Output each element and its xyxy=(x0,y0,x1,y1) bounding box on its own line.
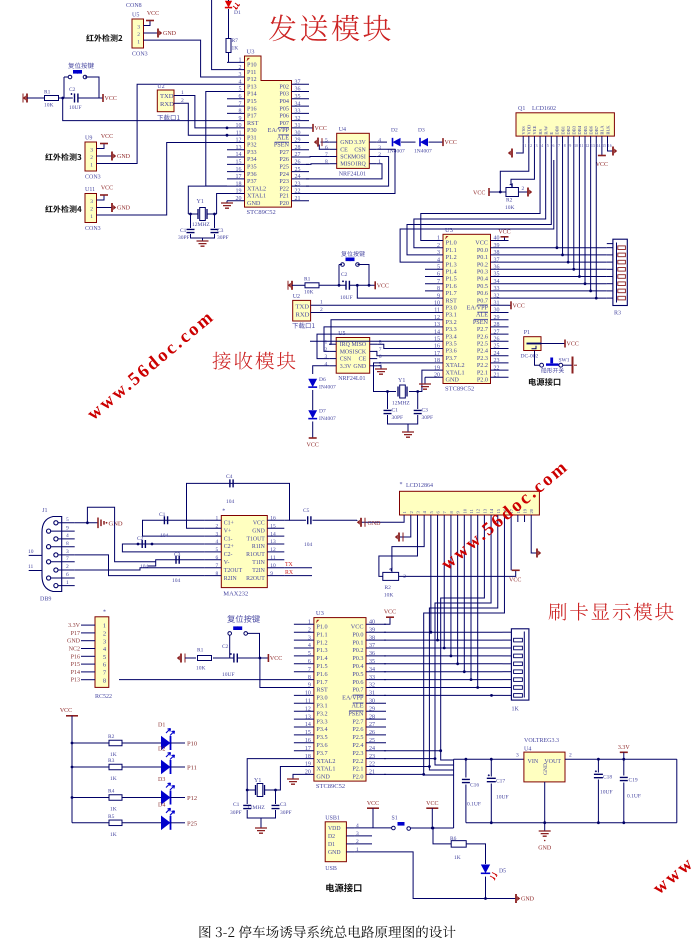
wire P1.7 net xyxy=(119,679,294,681)
svg-text:14: 14 xyxy=(270,531,276,537)
wire XTAL1 (top) xyxy=(217,193,227,214)
svg-text:S1: S1 xyxy=(392,816,398,822)
svg-text:U3: U3 xyxy=(445,227,453,234)
svg-text:32: 32 xyxy=(369,683,375,689)
wire LCD12864 ctrl2 xyxy=(429,522,497,770)
button reset (top) xyxy=(68,75,72,79)
wire XTAL1 (mid) xyxy=(409,370,425,391)
capacitor C2 (mid) xyxy=(346,281,349,290)
potentiometer R2 10K (bottom) xyxy=(383,572,399,580)
svg-text:2: 2 xyxy=(530,144,532,148)
svg-text:R3: R3 xyxy=(614,311,621,317)
svg-text:6: 6 xyxy=(216,555,219,561)
svg-text:C4: C4 xyxy=(226,474,233,480)
wire VOUT rail xyxy=(565,758,677,760)
capacitor C1 30PF (top) xyxy=(190,214,192,228)
svg-text:1N4007: 1N4007 xyxy=(414,149,432,155)
svg-text:32: 32 xyxy=(295,116,301,122)
diode D3 1N4007 xyxy=(420,138,428,147)
svg-text:VCC: VCC xyxy=(377,283,389,289)
wire U11.3 to VCC xyxy=(97,195,105,200)
svg-text:30PF: 30PF xyxy=(280,810,292,816)
svg-text:TX: TX xyxy=(285,562,294,568)
wire LCD12864 pin1 gnd xyxy=(361,521,404,523)
wire Y1 right xyxy=(207,213,217,215)
svg-text:22: 22 xyxy=(494,365,500,371)
pin 7 U5 nrf xyxy=(370,350,378,352)
svg-text:C1: C1 xyxy=(233,802,240,808)
svg-text:BLK: BLK xyxy=(605,125,610,135)
wire node to R6 xyxy=(433,828,451,844)
svg-text:P15: P15 xyxy=(247,98,257,105)
svg-text:P0.6: P0.6 xyxy=(477,290,488,297)
label 复位按键 (top) xyxy=(68,63,94,69)
wire U2.1 to P3.0 (mid) xyxy=(311,304,425,306)
svg-text:12: 12 xyxy=(236,138,242,144)
power VCC (D7) xyxy=(309,437,317,439)
svg-text:CON3: CON3 xyxy=(132,52,148,58)
svg-text:1K: 1K xyxy=(110,776,117,782)
svg-text:11: 11 xyxy=(305,699,311,705)
wire DB9 to R2IN xyxy=(75,555,205,576)
svg-text:2: 2 xyxy=(569,753,572,759)
svg-text:V-: V- xyxy=(224,560,230,566)
ground (reset bottom) xyxy=(180,654,182,663)
svg-text:7: 7 xyxy=(558,144,560,148)
wire bottom P0.1 xyxy=(384,639,503,641)
ground (U3T pin20) xyxy=(226,201,228,203)
svg-text:P3.3: P3.3 xyxy=(446,326,457,333)
svg-text:P1.5: P1.5 xyxy=(446,276,457,283)
display Q1 LCD1602 xyxy=(516,113,614,136)
svg-text:P37: P37 xyxy=(247,178,257,185)
svg-text:104: 104 xyxy=(160,533,169,539)
svg-text:P26: P26 xyxy=(279,156,289,163)
wire P3.6 to MISO xyxy=(377,344,425,348)
svg-text:35: 35 xyxy=(369,659,375,665)
label 复位按键 (bottom) xyxy=(227,615,260,623)
svg-text:P2.4: P2.4 xyxy=(477,348,488,355)
svg-text:13: 13 xyxy=(270,539,276,545)
wire DB1 bus xyxy=(562,143,564,255)
svg-text:P0.0: P0.0 xyxy=(352,631,363,638)
svg-text:XTAL2: XTAL2 xyxy=(446,362,465,369)
svg-text:22: 22 xyxy=(369,762,375,768)
wire P26 to U4 SCK xyxy=(306,156,330,159)
svg-text:P10: P10 xyxy=(247,62,257,69)
svg-text:VCC: VCC xyxy=(567,342,579,348)
pin 4 LCD1602 RS xyxy=(539,136,541,143)
svg-text:2: 2 xyxy=(308,627,311,633)
svg-text:P05: P05 xyxy=(279,105,289,112)
svg-text:VDD: VDD xyxy=(328,826,341,832)
svg-text:30: 30 xyxy=(494,308,500,314)
label 电源接口 (mid) xyxy=(529,378,560,386)
wire LCD pin2 VDD xyxy=(500,143,529,192)
capacitor C3 30PF (top) xyxy=(214,214,216,228)
svg-text:R1IN: R1IN xyxy=(252,544,266,550)
ground (Y1 top) xyxy=(197,241,209,246)
svg-text:6: 6 xyxy=(553,144,555,148)
wire LCD12864 data3 xyxy=(450,522,452,656)
svg-text:10UF: 10UF xyxy=(222,672,235,678)
svg-text:P23: P23 xyxy=(279,178,289,185)
svg-text:C1: C1 xyxy=(159,512,166,518)
svg-text:RC522: RC522 xyxy=(95,694,112,700)
ground (U4 pin5) xyxy=(321,141,330,143)
svg-text:3: 3 xyxy=(90,147,93,153)
wire P25 to U4 MISO xyxy=(306,163,330,166)
svg-text:20: 20 xyxy=(236,196,242,202)
svg-text:1K: 1K xyxy=(232,46,239,52)
resistor network R3 xyxy=(613,239,627,305)
svg-text:21: 21 xyxy=(494,373,500,379)
capacitor C16 0.1UF xyxy=(465,759,467,777)
power VCC (U5) xyxy=(146,20,154,22)
svg-text:R7: R7 xyxy=(232,38,239,44)
svg-text:3.3V: 3.3V xyxy=(340,364,352,370)
switch SW1 xyxy=(540,363,544,367)
wire D2 to D3 xyxy=(401,141,416,143)
LED D3 with resistor R4 net P12 xyxy=(72,797,109,799)
connector U9 CON3 xyxy=(85,142,97,171)
svg-text:3.3V: 3.3V xyxy=(354,140,366,146)
svg-text:7: 7 xyxy=(216,563,219,569)
svg-text:36: 36 xyxy=(494,265,500,271)
svg-text:XTAL2: XTAL2 xyxy=(247,185,266,192)
svg-text:5: 5 xyxy=(66,517,69,523)
svg-text:VCC: VCC xyxy=(101,186,113,192)
svg-text:P13: P13 xyxy=(247,83,257,90)
svg-text:40: 40 xyxy=(494,236,500,242)
svg-text:16: 16 xyxy=(270,516,276,522)
capacitor C17 10UF xyxy=(490,759,492,776)
svg-text:D7: D7 xyxy=(319,409,326,415)
svg-text:19: 19 xyxy=(434,365,440,371)
svg-text:VOLTREG3.3: VOLTREG3.3 xyxy=(524,738,559,744)
svg-text:104: 104 xyxy=(140,564,149,570)
svg-text:33: 33 xyxy=(295,109,301,115)
svg-text:8: 8 xyxy=(239,109,242,115)
wire reg gnd xyxy=(544,782,546,823)
wire C4 loop xyxy=(187,483,290,528)
resistor R1 (mid) xyxy=(305,283,319,288)
svg-text:VCC: VCC xyxy=(60,708,72,714)
svg-text:8: 8 xyxy=(308,675,311,681)
svg-text:P17: P17 xyxy=(247,113,257,120)
svg-text:33: 33 xyxy=(369,675,375,681)
svg-text:7: 7 xyxy=(308,667,311,673)
ground (U5 nrf) xyxy=(377,366,381,369)
svg-text:15: 15 xyxy=(305,730,311,736)
module U5 NRF24L01 (mid) xyxy=(336,338,370,374)
wire P0.5 row xyxy=(509,283,607,285)
svg-text:P1: P1 xyxy=(524,330,530,336)
wire DB6 bus xyxy=(590,143,592,291)
svg-text:EA/VPP: EA/VPP xyxy=(467,305,489,312)
wire bottom P0.6 xyxy=(384,679,503,681)
wire caps to gnd (mid) xyxy=(388,415,418,424)
svg-text:P32: P32 xyxy=(247,142,257,149)
svg-text:9: 9 xyxy=(270,571,273,577)
svg-text:C3: C3 xyxy=(280,802,287,808)
svg-text:1: 1 xyxy=(524,144,526,148)
svg-text:P2.1: P2.1 xyxy=(477,369,488,376)
svg-text:*: * xyxy=(400,482,403,488)
svg-text:C1: C1 xyxy=(180,228,187,234)
svg-text:P1.1: P1.1 xyxy=(316,631,327,638)
svg-text:LCD1602: LCD1602 xyxy=(532,106,556,112)
svg-text:30PF: 30PF xyxy=(217,235,229,241)
svg-text:P3.0: P3.0 xyxy=(446,305,457,312)
label 下载口1 (top) xyxy=(157,115,179,121)
svg-text:3.3V: 3.3V xyxy=(68,623,81,629)
svg-text:0.1UF: 0.1UF xyxy=(627,794,641,800)
wire P1 to VCC xyxy=(541,343,565,345)
capacitor C18 10UF xyxy=(597,759,599,772)
svg-text:P13: P13 xyxy=(71,678,80,684)
svg-text:6: 6 xyxy=(325,145,328,151)
svg-text:IRQ: IRQ xyxy=(340,342,351,348)
resistor network RP 1K xyxy=(511,629,529,700)
svg-text:D3: D3 xyxy=(158,777,165,783)
svg-text:17: 17 xyxy=(434,351,440,357)
pin 3 U5 nrf xyxy=(329,358,336,360)
wire C2 loop xyxy=(122,544,204,552)
svg-text:3: 3 xyxy=(66,549,69,555)
svg-text:3: 3 xyxy=(516,753,519,759)
ground (USB) xyxy=(515,894,517,903)
svg-text:Y1: Y1 xyxy=(254,778,261,784)
power VCC (LCD12864) xyxy=(512,569,520,571)
wire U4.1 to P23 xyxy=(306,164,382,179)
svg-text:SW1: SW1 xyxy=(559,358,570,364)
svg-text:1: 1 xyxy=(320,300,323,306)
wire LCD12864 data6 xyxy=(470,522,472,680)
svg-text:RST: RST xyxy=(247,120,259,127)
svg-text:P0.2: P0.2 xyxy=(477,261,488,268)
capacitor C1 30PF (mid) xyxy=(387,392,389,410)
pin 8 U4 xyxy=(330,163,337,165)
connector P1 DC-002 xyxy=(524,337,541,351)
wire to mid P1.3 xyxy=(400,160,554,262)
svg-text:P0.7: P0.7 xyxy=(352,687,363,694)
svg-text:CE: CE xyxy=(340,147,348,153)
svg-text:U4: U4 xyxy=(524,746,531,752)
svg-text:NRF24L01: NRF24L01 xyxy=(338,376,365,382)
svg-text:R2OUT: R2OUT xyxy=(246,576,265,582)
svg-text:DB1: DB1 xyxy=(560,125,565,134)
svg-text:VCC: VCC xyxy=(384,610,396,616)
svg-text:19: 19 xyxy=(236,189,242,195)
svg-text:25: 25 xyxy=(494,344,500,350)
wire LCD12864 data4 xyxy=(457,522,459,664)
connector J1 DB9 xyxy=(42,517,62,592)
power VCC (reset bottom) xyxy=(267,654,269,662)
svg-text:P2.1: P2.1 xyxy=(352,766,363,773)
svg-text:RS: RS xyxy=(538,129,543,135)
wire LCD12864 ctrl3 xyxy=(424,522,505,775)
ground (LCD12864 left) xyxy=(360,518,362,527)
svg-text:1K: 1K xyxy=(454,855,461,861)
power VCC (reset top) xyxy=(102,94,104,102)
svg-text:1: 1 xyxy=(378,159,381,165)
LED D1 xyxy=(225,1,232,8)
svg-text:C19: C19 xyxy=(629,778,638,784)
svg-text:D2: D2 xyxy=(391,128,398,134)
pin 3 U4 xyxy=(369,148,377,150)
svg-text:7: 7 xyxy=(379,347,382,353)
wire P3.2 to IRQ xyxy=(329,320,425,345)
svg-text:P3.6: P3.6 xyxy=(316,742,327,749)
svg-text:P0.4: P0.4 xyxy=(352,663,363,670)
svg-text:R1: R1 xyxy=(304,277,311,283)
pin 12 LCD1602 DB5 xyxy=(584,136,586,143)
svg-text:R6: R6 xyxy=(450,836,457,842)
svg-text:XTAL1: XTAL1 xyxy=(446,369,465,376)
pin 6 U5 nrf xyxy=(370,358,378,360)
wire C3 V- xyxy=(148,560,204,566)
svg-text:P3.5: P3.5 xyxy=(446,341,457,348)
svg-text:ALE: ALE xyxy=(351,703,363,710)
svg-text:VCC: VCC xyxy=(367,801,379,807)
svg-text:10: 10 xyxy=(270,563,276,569)
wire LCD12864 data2 xyxy=(443,522,445,648)
svg-text:Y1: Y1 xyxy=(197,199,204,205)
svg-text:4: 4 xyxy=(378,138,381,144)
svg-text:16: 16 xyxy=(608,144,612,148)
svg-text:Y1: Y1 xyxy=(398,378,405,384)
ground (SW1) xyxy=(572,357,574,374)
svg-text:18: 18 xyxy=(305,754,311,760)
wire button left leg (mid) xyxy=(339,264,342,266)
svg-text:18: 18 xyxy=(434,358,440,364)
svg-text:2: 2 xyxy=(103,631,106,638)
svg-text:P2.3: P2.3 xyxy=(352,750,363,757)
wire DB3 bus xyxy=(573,143,575,269)
svg-text:15: 15 xyxy=(236,160,242,166)
svg-text:NC2: NC2 xyxy=(69,647,80,653)
pin 3 LCD1602 VEE xyxy=(533,136,535,143)
resistor R1 (top) xyxy=(45,96,59,101)
svg-text:P2.2: P2.2 xyxy=(352,758,363,765)
switch S1 xyxy=(392,826,396,830)
ground (bottom pin20) xyxy=(293,774,294,779)
svg-text:XTAL1: XTAL1 xyxy=(316,766,335,773)
svg-text:4: 4 xyxy=(437,257,440,263)
svg-text:4: 4 xyxy=(324,361,327,367)
svg-text:P2.7: P2.7 xyxy=(477,326,488,333)
svg-text:38: 38 xyxy=(369,635,375,641)
svg-text:EA/VPP: EA/VPP xyxy=(342,695,364,702)
svg-text:P16: P16 xyxy=(247,105,257,112)
op-amp U3 MCU STC89C52 (transmit) xyxy=(245,56,292,207)
svg-text:P1.1: P1.1 xyxy=(446,247,457,254)
svg-text:VEE: VEE xyxy=(532,125,537,134)
svg-text:MISO: MISO xyxy=(351,342,366,348)
svg-text:5: 5 xyxy=(437,265,440,271)
svg-text:P0.3: P0.3 xyxy=(352,655,363,662)
svg-text:39: 39 xyxy=(494,243,500,249)
svg-text:2: 2 xyxy=(66,564,69,570)
power VCC (LCD backlight) xyxy=(598,155,606,157)
wire P3.7 to SCK xyxy=(377,351,425,355)
wire U9.3 to VCC xyxy=(97,144,105,149)
label 电源接口 (bottom) xyxy=(326,883,361,892)
svg-text:10UF: 10UF xyxy=(600,790,613,796)
svg-text:15: 15 xyxy=(434,337,440,343)
svg-text:12: 12 xyxy=(476,508,481,513)
wire P0.2 row xyxy=(509,261,607,263)
svg-text:GND: GND xyxy=(252,528,265,534)
svg-text:1: 1 xyxy=(216,516,219,522)
svg-text:R/W: R/W xyxy=(543,125,548,134)
svg-text:30PF: 30PF xyxy=(230,810,242,816)
svg-text:5: 5 xyxy=(325,138,328,144)
wire P2.3 feed xyxy=(384,750,441,752)
svg-text:35: 35 xyxy=(295,94,301,100)
ground (LCD12864 pin2) xyxy=(398,533,400,542)
svg-text:36: 36 xyxy=(295,87,301,93)
svg-text:P06: P06 xyxy=(279,113,289,120)
wire P0.1 row xyxy=(509,254,607,256)
svg-text:2: 2 xyxy=(403,574,406,580)
svg-text:3: 3 xyxy=(378,145,381,151)
svg-text:4: 4 xyxy=(239,79,242,85)
svg-text:GND: GND xyxy=(163,31,177,37)
svg-text:8: 8 xyxy=(103,677,106,684)
wire button loop xyxy=(64,76,68,78)
svg-text:D5: D5 xyxy=(499,869,506,875)
wire button right leg (mid) xyxy=(358,265,370,286)
svg-text:P3.0: P3.0 xyxy=(316,695,327,702)
svg-text:3.3V: 3.3V xyxy=(618,745,631,751)
svg-text:34: 34 xyxy=(494,279,500,285)
wire LCD RS to mid P1.0 xyxy=(421,143,540,240)
svg-text:P3.7: P3.7 xyxy=(316,750,327,757)
power 3.3V xyxy=(620,751,628,753)
svg-text:P2.3: P2.3 xyxy=(477,355,488,362)
svg-text:5: 5 xyxy=(308,651,311,657)
svg-text:2: 2 xyxy=(90,207,93,213)
ground (LCD1602 left) xyxy=(511,149,513,158)
pin 2 LCD1602 VDD xyxy=(528,136,530,143)
svg-text:1: 1 xyxy=(437,236,440,242)
svg-text:P20: P20 xyxy=(279,200,289,207)
svg-text:P1.6: P1.6 xyxy=(316,671,327,678)
pin 5 U5 nrf xyxy=(370,365,378,367)
svg-text:P3.2: P3.2 xyxy=(446,319,457,326)
power VCC (U9) xyxy=(100,143,108,145)
svg-text:CSN: CSN xyxy=(354,147,366,153)
wire C2 to VCC xyxy=(78,97,103,99)
ground (U11) xyxy=(111,203,113,212)
capacitor C4 104 xyxy=(230,479,233,487)
capacitor C3 30PF (mid) xyxy=(417,392,419,410)
wire C2 to VCC (mid) xyxy=(349,284,375,286)
svg-text:16: 16 xyxy=(236,167,242,173)
svg-text:R2: R2 xyxy=(506,198,513,204)
svg-text:P1.7: P1.7 xyxy=(316,679,327,686)
svg-text:6: 6 xyxy=(239,94,242,100)
wire pot to VCC (bottom) xyxy=(399,570,516,576)
svg-text:XTAL2: XTAL2 xyxy=(316,758,335,765)
svg-text:30PF: 30PF xyxy=(392,415,404,421)
svg-text:P2.6: P2.6 xyxy=(477,333,488,340)
svg-text:8: 8 xyxy=(437,286,440,292)
svg-text:STC89C52: STC89C52 xyxy=(445,386,474,393)
pin 4 U5 nrf xyxy=(329,365,336,367)
